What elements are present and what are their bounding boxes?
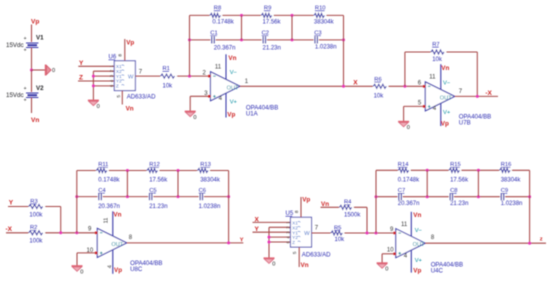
wire resistor row R14 R15 R16 (376, 169, 530, 171)
wire column R9/R10-C2/C3 (291, 15, 293, 40)
junction bus pin6 (U5) (268, 241, 271, 244)
svg-text:17.56k: 17.56k (149, 178, 168, 184)
junction R9-R10 (291, 14, 294, 17)
svg-text:5: 5 (116, 95, 122, 98)
svg-text:0: 0 (407, 125, 410, 131)
svg-text:Vn: Vn (413, 212, 421, 219)
wire Y to R3 (8, 206, 61, 208)
wire R7 right column (476, 52, 478, 96)
pin 4 V+ stub U7B (440, 103, 442, 126)
wire resistor row R11 R12 R13 (77, 170, 229, 172)
svg-text:+: + (24, 36, 27, 42)
svg-text:15Vdc: 15Vdc (6, 92, 24, 99)
svg-text:Vn: Vn (301, 262, 309, 269)
svg-text:5: 5 (292, 251, 298, 254)
wire R3 down to input node (60, 207, 62, 233)
wire U6 pin3 to bus (93, 75, 114, 77)
svg-text:Vn: Vn (113, 212, 121, 219)
svg-text:OUT: OUT (440, 95, 452, 101)
svg-text:11: 11 (104, 218, 110, 224)
wire R7 row (405, 51, 477, 53)
wire V2 to Vn (31, 98, 33, 114)
svg-text:0: 0 (272, 262, 275, 268)
svg-text:100k: 100k (29, 212, 43, 218)
junction C7-C8 (426, 195, 429, 198)
wire column C8-C9 (477, 170, 479, 196)
svg-text:1.0238n: 1.0238n (199, 204, 221, 210)
svg-text:AD633/AD: AD633/AD (127, 93, 156, 100)
wire R4 down to input node (366, 207, 368, 233)
junction cap row left (bl) (75, 195, 78, 198)
resistor R1 (161, 73, 177, 79)
ground wire U7B pin5 (404, 105, 424, 107)
ground 0 (U6 bus) (88, 99, 99, 101)
ground 0 (U7B pin5) (398, 121, 409, 123)
svg-text:+: + (24, 98, 27, 104)
wire Y to U5 pin3 (253, 231, 291, 233)
svg-text:W: W (128, 75, 134, 81)
junction supply midpoint (30, 69, 33, 72)
pin 11 V- stub U1A (225, 54, 227, 79)
wire U4C out (node z) (425, 242, 546, 244)
op-amp U8C OPA404/BB (97, 228, 126, 257)
svg-text:U7B: U7B (459, 120, 471, 127)
junction R4/R5 (366, 232, 369, 235)
pin 11 V- stub U8C (112, 211, 114, 236)
resistor R14 (398, 167, 410, 173)
resistor R8 (210, 12, 222, 18)
ground 0 (supply) (45, 65, 47, 76)
svg-text:0: 0 (52, 68, 55, 74)
pin 11 V- stub U7B (440, 64, 442, 89)
junction C4-C5 (126, 195, 129, 198)
svg-text:Vp: Vp (302, 197, 310, 204)
junction feedback right (bl) (227, 241, 230, 244)
junction C8-C9 (477, 195, 480, 198)
svg-text:11: 11 (401, 222, 408, 228)
svg-text:-X: -X (485, 90, 492, 97)
svg-text:W: W (304, 231, 310, 237)
junction feedback left / input node (188, 75, 191, 78)
svg-text:Vn: Vn (441, 65, 449, 72)
junction C1-C2 (240, 38, 243, 41)
wire U5 pin8 to Vp (300, 197, 302, 217)
wire U8C out (node Y) (127, 242, 244, 244)
wire capacitor row C4 C5 C6 (77, 196, 229, 198)
svg-text:Vn: Vn (126, 105, 134, 112)
svg-text:+: + (24, 86, 27, 92)
wire up to R7 (404, 52, 406, 86)
junction R7 left (403, 85, 406, 88)
svg-text:10: 10 (387, 247, 394, 253)
ground wire U8C pin10 (77, 252, 96, 254)
svg-text:15Vdc: 15Vdc (6, 42, 24, 49)
wire Y to U6 pin1 (78, 65, 114, 67)
svg-text:Y: Y (9, 200, 14, 207)
wire U5 ground bus (268, 227, 270, 258)
resistor R13 (197, 168, 209, 174)
svg-text:OUT: OUT (413, 242, 425, 248)
svg-text:10k: 10k (432, 57, 443, 63)
svg-text:U8C: U8C (130, 266, 143, 273)
wire feedback right column (343, 15, 345, 86)
wire U6 pin7 to U1A pin2 (135, 75, 210, 77)
svg-text:V+: V+ (230, 100, 238, 106)
junction cap row right (bl) (227, 195, 230, 198)
wire capacitor row C1 C2 C3 (190, 39, 344, 41)
capacitor C2 (262, 36, 267, 44)
multiplier U6 AD633/AD (114, 61, 135, 91)
junction R14-R15 (426, 169, 429, 172)
junction bus pin3 (92, 75, 95, 78)
wire resistor row R8 R9 R10 (190, 14, 344, 16)
resistor R2 (29, 230, 45, 236)
svg-text:V−: V− (415, 228, 423, 234)
svg-text:V−: V− (443, 80, 451, 86)
wire feedback left column (br) (375, 170, 377, 233)
voltage source V2 15Vdc (26, 92, 38, 94)
svg-text:0: 0 (385, 267, 388, 273)
resistor R7 (431, 49, 446, 55)
pin 4 V+ stub U8C (112, 250, 114, 274)
svg-text:0: 0 (193, 115, 196, 121)
svg-text:Vn: Vn (228, 55, 236, 62)
wire capacitor row C7 C8 C9 (376, 196, 530, 198)
wire X to U5 pin1 (253, 221, 291, 223)
wire column C5-C6 (bl) (177, 171, 179, 197)
wire U5 pin5 to Vn (298, 247, 300, 267)
svg-text:Vp: Vp (413, 267, 421, 274)
svg-text:OUT: OUT (111, 242, 123, 248)
svg-text:Vp: Vp (31, 19, 39, 26)
svg-text:8: 8 (118, 54, 124, 57)
capacitor C5 (148, 193, 153, 201)
svg-text:1500k: 1500k (344, 212, 361, 218)
wire column C7-C8 (426, 170, 428, 196)
resistor R6 (373, 83, 388, 89)
wire V1 to junction (31, 48, 33, 71)
wire U5 pin7 through R5 to U4C pin9 (312, 232, 395, 234)
wire U1A out to R6 (node X) (240, 85, 373, 87)
svg-text:Y: Y (240, 238, 244, 244)
svg-text:20.367n: 20.367n (398, 201, 420, 207)
resistor R12 (147, 168, 159, 174)
pin 4 V+ stub U1A (225, 93, 227, 117)
wire junction to V2 (31, 70, 33, 92)
svg-text:10k: 10k (335, 237, 346, 243)
wire R6 to U7B pin6 (388, 85, 424, 87)
svg-text:V2: V2 (36, 85, 44, 92)
junction C2-C3 (291, 38, 294, 41)
junction R7 right (476, 95, 479, 98)
resistor R15 (449, 167, 461, 173)
wire column R8/R9-C1/C2 (241, 15, 243, 40)
resistor R9 (261, 12, 273, 18)
wire U5 pin2 to bus (269, 226, 291, 228)
wire junction to ground 0 (32, 69, 46, 71)
svg-text:+: + (24, 48, 27, 54)
junction X node (342, 85, 345, 88)
svg-text:Y: Y (79, 60, 84, 67)
junction R15-R16 (477, 169, 480, 172)
svg-text:V+: V+ (415, 258, 423, 264)
svg-text:Vp: Vp (114, 267, 122, 274)
svg-text:Z: Z (292, 240, 295, 245)
svg-text:V+: V+ (443, 110, 451, 116)
capacitor C6 (199, 193, 204, 201)
ground wire U1A pin3 (190, 95, 209, 97)
svg-text:100k: 100k (29, 239, 43, 245)
op-amp U7B OPA404/BB (425, 82, 454, 111)
ground 0 (U5 bus) (264, 257, 275, 259)
svg-text:Vp: Vp (227, 112, 235, 119)
wire feedback right column (br) (529, 170, 531, 243)
capacitor C7 (398, 193, 403, 201)
wire U7B out (node -X) (455, 95, 498, 97)
junction R3/R2 (59, 231, 62, 234)
junction R11-R12 (126, 169, 129, 172)
svg-text:10k: 10k (374, 93, 385, 99)
ground 0 (U4C pin10) (377, 262, 388, 264)
capacitor C4 (98, 193, 103, 201)
wire U6 ground bus (92, 71, 94, 100)
pin 11 V- stub U4C (410, 212, 412, 237)
svg-text:17.56k: 17.56k (450, 178, 469, 184)
svg-text:Vp: Vp (126, 39, 134, 46)
resistor R10 (314, 12, 326, 18)
junction cap row left (188, 38, 191, 41)
junction cap row right (br) (528, 195, 531, 198)
svg-text:0.1748k: 0.1748k (98, 178, 120, 184)
svg-text:11: 11 (429, 75, 436, 81)
svg-text:38304k: 38304k (314, 19, 335, 25)
svg-text:11: 11 (215, 64, 222, 70)
svg-text:10: 10 (87, 248, 94, 254)
svg-text:z: z (540, 237, 543, 243)
wire Z to U6 pin4 (78, 80, 114, 82)
junction R12-R13 (177, 169, 180, 172)
ground 0 (U8C pin10) (72, 265, 83, 267)
junction cap row right (342, 38, 345, 41)
pin 4 V+ stub U4C (410, 250, 412, 273)
svg-text:Vn: Vn (31, 117, 39, 124)
voltage source V1 15Vdc (26, 42, 38, 44)
svg-text:V1: V1 (36, 34, 44, 41)
svg-text:Vp: Vp (441, 120, 449, 127)
junction R8-R9 (240, 14, 243, 17)
op-amp U1A OPA404/BB (211, 72, 240, 101)
junction C5-C6 (177, 195, 180, 198)
junction bus pin4 (U5) (268, 236, 271, 239)
junction feedback right (br) (528, 242, 531, 245)
svg-text:-X: -X (6, 226, 13, 233)
svg-text:Z: Z (116, 84, 119, 89)
svg-text:21.23n: 21.23n (450, 201, 468, 207)
svg-text:1.0238n: 1.0238n (315, 45, 337, 51)
resistor R4 (339, 204, 353, 210)
svg-text:4: 4 (108, 265, 114, 268)
wire column C4-C5 (bl) (126, 171, 128, 197)
wire U5 pin4 to bus (269, 236, 291, 238)
svg-text:20.367n: 20.367n (214, 46, 236, 52)
multiplier U5 AD633/AD (291, 217, 312, 247)
capacitor C1 (211, 36, 216, 44)
capacitor C8 (449, 193, 454, 201)
capacitor C9 (500, 193, 505, 201)
svg-text:38304k: 38304k (501, 178, 522, 184)
svg-text:V−: V− (230, 70, 238, 76)
wire feedback right column (bl) (228, 171, 230, 243)
svg-text:21.23n: 21.23n (263, 46, 281, 52)
wire U6 pin8 to Vp (124, 39, 126, 61)
svg-text:OUT: OUT (227, 85, 239, 91)
wire U6 pin2 to bus (93, 70, 114, 72)
svg-text:17.56k: 17.56k (263, 19, 282, 25)
resistor R16 (499, 167, 511, 173)
capacitor C3 (314, 36, 319, 44)
svg-text:0: 0 (97, 104, 100, 110)
svg-text:0: 0 (80, 270, 83, 276)
junction feedback left (br) (375, 232, 378, 235)
svg-text:U4C: U4C (431, 267, 444, 274)
svg-text:38304k: 38304k (200, 178, 221, 184)
junction feedback left (bottom-left) (75, 231, 78, 234)
wire U6 pin5 to Vn (121, 91, 123, 105)
resistor R5 (331, 230, 344, 236)
ground wire U4C pin10 (382, 253, 395, 255)
svg-text:U1A: U1A (246, 110, 259, 117)
svg-text:10k: 10k (163, 84, 174, 90)
wire Vn through R4 (321, 206, 368, 208)
svg-text:20.367n: 20.367n (98, 204, 120, 210)
junction bus pin6 (92, 84, 95, 87)
svg-text:0.1748k: 0.1748k (212, 19, 234, 25)
junction cap row left (br) (375, 195, 378, 198)
svg-text:21.23n: 21.23n (149, 204, 167, 210)
wire U5 pin6 to bus (269, 241, 291, 243)
wire feedback left column (189, 15, 191, 76)
svg-text:AD633/AD: AD633/AD (302, 251, 331, 258)
ground 0 (U1A pin3) (185, 110, 196, 112)
svg-text:1.0238n: 1.0238n (501, 201, 523, 207)
svg-text:8: 8 (294, 210, 300, 213)
svg-text:X: X (353, 79, 358, 86)
wire U6 pin6 to bus (93, 85, 114, 87)
wire -X through R2 to U8C pin9 (6, 232, 96, 234)
svg-text:0.1748k: 0.1748k (398, 178, 420, 184)
resistor R3 (29, 204, 45, 210)
wire feedback left column (bl) (76, 171, 78, 233)
wire Vp to V1 (31, 25, 33, 43)
op-amp U4C OPA404/BB (396, 229, 425, 258)
resistor R11 (96, 168, 108, 174)
